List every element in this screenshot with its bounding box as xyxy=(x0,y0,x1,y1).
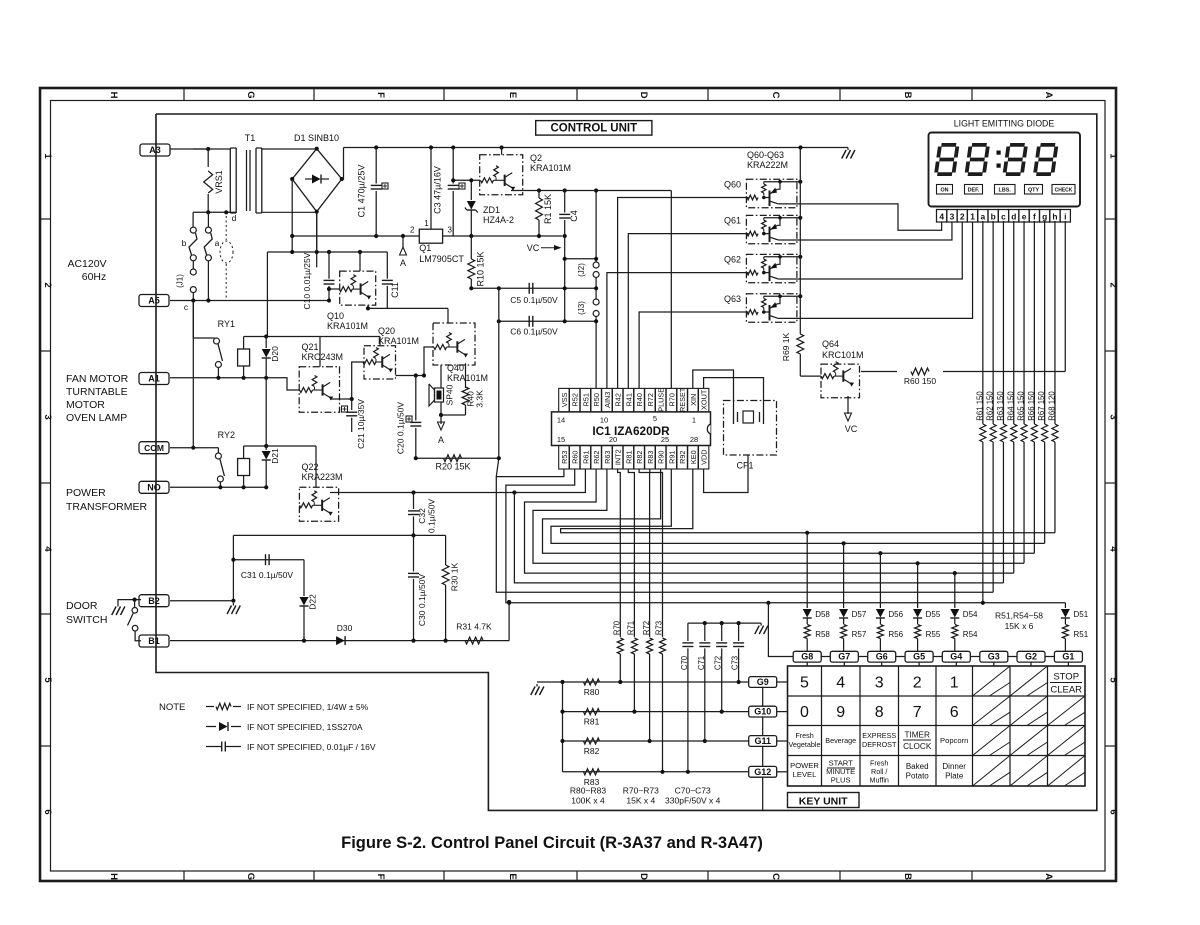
capacitor C6 0.1u/50V xyxy=(528,316,530,327)
node G4 strobe box xyxy=(942,651,970,662)
svg-text:R82: R82 xyxy=(584,746,600,756)
diode D54 xyxy=(953,571,957,575)
wire G9 row xyxy=(563,681,749,683)
svg-text:R69 1K: R69 1K xyxy=(781,332,791,361)
wire VC column xyxy=(564,236,566,321)
resistor R67 150 xyxy=(1044,221,1046,424)
wire display pin 4 to Q60 xyxy=(778,204,941,230)
resistor R56 xyxy=(877,625,883,639)
wire Q21 emitter to C21 column xyxy=(330,398,352,400)
wire B2 row xyxy=(170,600,233,602)
svg-text:CLEAR: CLEAR xyxy=(1050,685,1082,696)
node rail Q60 collector line xyxy=(798,145,802,149)
svg-text:H: H xyxy=(108,873,119,880)
wire A5 column to RY1 xyxy=(193,301,214,339)
resistor R61 150 xyxy=(982,221,984,424)
svg-text:D1 SINB10: D1 SINB10 xyxy=(294,133,339,143)
svg-text:(J1): (J1) xyxy=(176,274,185,288)
svg-text:R81: R81 xyxy=(584,717,600,727)
node emitter C4 xyxy=(563,188,567,192)
svg-text:G3: G3 xyxy=(988,652,1000,662)
svg-text:HZ4A-2: HZ4A-2 xyxy=(483,215,514,225)
svg-text:f: f xyxy=(1033,211,1036,221)
svg-text:Vegetable: Vegetable xyxy=(789,740,821,749)
wire bridge bottom to zero-cross row xyxy=(316,212,318,252)
svg-text:c: c xyxy=(1001,211,1006,221)
svg-text:A5: A5 xyxy=(148,296,160,306)
relay coil RY2 xyxy=(238,459,250,476)
svg-text:i: i xyxy=(1064,211,1066,221)
IC1 bottom pin labels xyxy=(559,446,709,470)
svg-text:Popcorn: Popcorn xyxy=(940,736,968,745)
svg-text:OVEN LAMP: OVEN LAMP xyxy=(66,412,127,424)
svg-text:PLUS: PLUS xyxy=(831,776,851,785)
svg-text:R1 15K: R1 15K xyxy=(543,194,553,224)
wire Q2 base from C3 node xyxy=(453,179,480,181)
svg-text:R65 150: R65 150 xyxy=(1017,391,1026,421)
capacitor C3 47u/16V xyxy=(452,148,454,184)
svg-text:(J2): (J2) xyxy=(577,263,586,277)
resistor R66 150 xyxy=(1033,221,1035,424)
capacitor C20 0.1u/50V xyxy=(415,376,417,421)
svg-text:R73: R73 xyxy=(655,621,664,635)
wire D20 column to RY2 xyxy=(265,378,267,446)
svg-text:C6 0.1µ/50V: C6 0.1µ/50V xyxy=(510,327,558,337)
wire C31 C32 row xyxy=(233,534,445,536)
svg-text:KRC101M: KRC101M xyxy=(822,350,864,360)
svg-text:B2: B2 xyxy=(148,596,160,606)
wire lower supply rail xyxy=(292,235,419,237)
wire VDD to CF1 xyxy=(704,455,748,493)
svg-text:FAN MOTOR: FAN MOTOR xyxy=(66,373,129,385)
svg-text:C11: C11 xyxy=(390,282,400,298)
display pin row 4321 abcdefghi xyxy=(937,210,1071,223)
wire speaker to A arrow xyxy=(440,402,442,415)
display tag CHECK xyxy=(1052,185,1075,195)
wire Q22 emitter row xyxy=(330,492,514,494)
note resistor symbol xyxy=(206,706,214,708)
capacitor C10 0.01u/25V xyxy=(328,252,330,279)
door switch contacts xyxy=(133,598,137,602)
svg-text:1: 1 xyxy=(970,211,975,221)
node G7 strobe box xyxy=(830,651,858,662)
wire segment bus line h xyxy=(561,469,1055,533)
wire Q22 collector riser xyxy=(315,446,317,487)
svg-text:d: d xyxy=(1011,211,1016,221)
resistor R81 100K xyxy=(584,709,600,715)
svg-text:G9: G9 xyxy=(757,677,769,687)
node A3-VRS1 xyxy=(206,147,210,151)
wire sense left tie column xyxy=(562,682,564,772)
svg-text:R91: R91 xyxy=(667,451,676,464)
node c junction xyxy=(191,298,195,302)
keypad grid xyxy=(788,666,1086,786)
terminal A3 xyxy=(140,144,170,156)
resistor R65 150 xyxy=(1023,221,1025,424)
svg-text:F: F xyxy=(375,92,386,98)
svg-text:CLOCK: CLOCK xyxy=(903,742,932,751)
capacitor C32 0.1u/50V xyxy=(413,493,415,510)
wire C31 row xyxy=(233,559,304,561)
display tag LBS xyxy=(995,185,1016,195)
resistor R82 100K xyxy=(584,738,600,744)
svg-text:EXPRESS: EXPRESS xyxy=(862,731,896,740)
door switch ground xyxy=(118,600,141,604)
capacitor C30 0.1u/50V xyxy=(413,535,415,571)
wire C70-73 top rail xyxy=(688,622,761,624)
node G10 sense box xyxy=(749,706,777,717)
svg-text:R31 4.7K: R31 4.7K xyxy=(456,622,492,632)
resistor R30 1K xyxy=(445,535,447,565)
svg-text:C70~C73: C70~C73 xyxy=(675,786,711,796)
svg-text:C1 470µ/25V: C1 470µ/25V xyxy=(357,165,367,218)
capacitor C31 0.1u/50V xyxy=(265,554,267,565)
svg-text:KEY UNIT: KEY UNIT xyxy=(799,795,848,807)
svg-text:R57: R57 xyxy=(852,630,867,639)
svg-text:R70: R70 xyxy=(613,620,622,635)
svg-text:6: 6 xyxy=(1108,809,1119,814)
wire C6 row xyxy=(499,320,596,322)
svg-text:R40: R40 xyxy=(635,393,644,406)
svg-text:D54: D54 xyxy=(963,610,978,619)
svg-text:G12: G12 xyxy=(754,767,771,777)
resonator CF1 xyxy=(724,401,777,456)
svg-text:5: 5 xyxy=(653,414,657,423)
node G8 strobe box xyxy=(793,651,821,662)
svg-text:4: 4 xyxy=(836,675,845,692)
wire R31 riser to bus xyxy=(508,602,510,641)
transistor Q20 KRA101M xyxy=(364,346,396,379)
svg-text:25: 25 xyxy=(661,435,669,444)
svg-text:R66 150: R66 150 xyxy=(1027,391,1036,421)
svg-text:E: E xyxy=(507,873,518,879)
connector J3 xyxy=(595,288,597,299)
svg-text:R70~R73: R70~R73 xyxy=(623,786,659,796)
svg-text:CF1: CF1 xyxy=(736,461,753,471)
display colon xyxy=(997,151,1001,155)
wire zero-cross row xyxy=(267,251,387,253)
svg-text:R52: R52 xyxy=(571,393,580,406)
node A arrow down xyxy=(440,415,442,424)
resistor R83 100K xyxy=(584,769,600,775)
display tag QTY xyxy=(1025,185,1043,195)
svg-text:ON: ON xyxy=(940,188,948,194)
svg-text:R51: R51 xyxy=(1074,630,1089,639)
svg-text:1: 1 xyxy=(42,153,53,159)
svg-text:C: C xyxy=(770,873,781,880)
svg-text:B: B xyxy=(902,92,913,99)
svg-text:IF NOT SPECIFIED, 1/4W ± 5%: IF NOT SPECIFIED, 1/4W ± 5% xyxy=(247,702,369,712)
wire G box column xyxy=(762,687,764,706)
svg-text:4: 4 xyxy=(1108,546,1119,552)
svg-text:R55: R55 xyxy=(926,630,941,639)
svg-text:G7: G7 xyxy=(838,652,850,662)
svg-text:Q10: Q10 xyxy=(327,311,344,321)
svg-text:Q62: Q62 xyxy=(724,254,741,264)
svg-text:F: F xyxy=(375,874,386,880)
svg-text:CHECK: CHECK xyxy=(1055,188,1073,194)
svg-text:0.1µ/50V: 0.1µ/50V xyxy=(427,499,437,534)
node lower rail A xyxy=(401,234,405,238)
svg-text:1: 1 xyxy=(424,219,429,228)
frame tick marks left xyxy=(40,219,51,746)
7-segment digit 2 xyxy=(966,145,988,174)
svg-text:G10: G10 xyxy=(754,707,771,717)
svg-text:R81: R81 xyxy=(624,451,633,464)
inner border frame xyxy=(51,101,1106,872)
svg-text:5: 5 xyxy=(800,675,809,692)
CONTROL UNIT label box xyxy=(536,121,652,136)
svg-text:R53: R53 xyxy=(560,451,569,464)
node ZD1 rail xyxy=(469,234,473,238)
svg-text:KE0: KE0 xyxy=(689,450,698,464)
svg-text:B: B xyxy=(902,873,913,880)
relay contact RY2 xyxy=(217,448,219,453)
svg-text:PLUSE: PLUSE xyxy=(657,388,666,412)
node VRS1 bottom xyxy=(206,210,210,214)
svg-text:2: 2 xyxy=(1108,282,1119,287)
svg-text:C31 0.1µ/50V: C31 0.1µ/50V xyxy=(241,570,293,580)
svg-text:RY2: RY2 xyxy=(218,430,235,440)
svg-text:Plate: Plate xyxy=(945,772,964,781)
resistor R73 15K xyxy=(650,469,663,637)
node G6 strobe box xyxy=(868,651,896,662)
interlock dashed linkage xyxy=(225,216,227,240)
svg-text:3: 3 xyxy=(875,675,884,692)
wire switch leg b from rail xyxy=(193,148,208,150)
wire A1 row xyxy=(170,377,266,379)
svg-text:b: b xyxy=(182,238,187,248)
wire relay supply column xyxy=(266,252,268,337)
svg-text:Q2: Q2 xyxy=(530,153,542,163)
svg-text:KRA222M: KRA222M xyxy=(747,160,788,170)
wire segment bus line d xyxy=(525,469,1014,573)
svg-text:TURNTABLE: TURNTABLE xyxy=(66,386,128,398)
svg-text:ZD1: ZD1 xyxy=(483,205,500,215)
wire key line a to D51 xyxy=(983,602,1066,604)
svg-text:C20 0.1µ/50V: C20 0.1µ/50V xyxy=(396,402,406,454)
wire G8 chain riser xyxy=(768,603,793,657)
svg-text:D55: D55 xyxy=(926,610,941,619)
resistor R20 15K xyxy=(416,457,499,459)
wire R41 riser to Q61 base xyxy=(628,234,748,389)
svg-text:R63 150: R63 150 xyxy=(996,391,1005,421)
svg-text:(J3): (J3) xyxy=(577,301,586,315)
wire Q20 collector stub xyxy=(379,337,381,346)
wire NO row xyxy=(170,486,266,488)
display tag ON xyxy=(937,185,953,195)
svg-text:R54: R54 xyxy=(963,630,978,639)
svg-text:2: 2 xyxy=(960,211,965,221)
svg-text:Q61: Q61 xyxy=(724,215,741,225)
svg-text:B1: B1 xyxy=(148,636,160,646)
svg-text:KRA101M: KRA101M xyxy=(327,321,368,331)
terminal NO xyxy=(139,481,169,493)
svg-text:LM7905CT: LM7905CT xyxy=(419,254,464,264)
svg-text:VRS1: VRS1 xyxy=(214,170,224,194)
wire R70 riser from Q2 emitter xyxy=(670,191,672,389)
wire COM row xyxy=(170,447,218,449)
svg-text:TIMER: TIMER xyxy=(904,731,930,740)
svg-text:0: 0 xyxy=(800,704,809,721)
svg-text:Beverage: Beverage xyxy=(825,736,856,745)
wire segment bus line c xyxy=(514,469,1003,583)
node G9 sense box xyxy=(749,677,777,688)
svg-text:15K x 4: 15K x 4 xyxy=(626,796,655,806)
svg-text:Q63: Q63 xyxy=(724,294,741,304)
wire G11 row xyxy=(563,740,749,742)
terminal A1 xyxy=(139,373,169,385)
svg-text:6: 6 xyxy=(950,704,959,721)
svg-text:G8: G8 xyxy=(801,652,813,662)
svg-text:D56: D56 xyxy=(888,610,903,619)
resistor R68 120 xyxy=(1054,221,1056,424)
transistor Q62 xyxy=(746,254,797,282)
svg-text:Baked: Baked xyxy=(906,762,929,771)
transistor Q10 KRA101M xyxy=(340,271,376,305)
svg-text:2: 2 xyxy=(42,282,53,287)
wire segment bus line g xyxy=(551,469,1045,543)
svg-text:E: E xyxy=(507,92,518,98)
svg-text:D30: D30 xyxy=(337,623,353,633)
svg-text:R62: R62 xyxy=(592,451,601,464)
svg-text:VC: VC xyxy=(845,424,858,434)
wire display pin 3 to Q61 xyxy=(778,222,952,240)
resistor R55 xyxy=(915,625,921,639)
node G1 strobe box xyxy=(1054,651,1082,662)
svg-text:R83: R83 xyxy=(646,451,655,464)
svg-text:VDD: VDD xyxy=(700,449,709,464)
svg-text:Q64: Q64 xyxy=(822,339,839,349)
diode D30 xyxy=(336,636,345,645)
LED display body xyxy=(929,133,1081,207)
wire Q2 emitter line xyxy=(511,190,671,192)
svg-text:NOTE: NOTE xyxy=(159,702,185,713)
wire C31 left column xyxy=(232,535,234,600)
KEY UNIT label box xyxy=(788,793,860,808)
svg-text:a: a xyxy=(981,211,986,221)
svg-text:G6: G6 xyxy=(876,652,888,662)
svg-text:R62 150: R62 150 xyxy=(986,391,995,421)
resistor R57 xyxy=(841,625,847,639)
svg-text:A: A xyxy=(400,258,406,268)
svg-text:KRA101M: KRA101M xyxy=(447,373,488,383)
node rail Q1 riser xyxy=(429,145,433,149)
resistor R69 1K xyxy=(797,334,804,354)
capacitor C72 xyxy=(721,623,723,641)
capacitor C21 10u/35V xyxy=(346,411,357,413)
wire VRS1 bottom rail xyxy=(193,211,236,213)
wire R42 riser to Q60 base xyxy=(618,198,749,389)
svg-text:R80: R80 xyxy=(584,687,600,697)
IC IC1 IZA620DR body xyxy=(552,412,711,446)
wire A5 row xyxy=(170,300,329,302)
svg-text:100K x 4: 100K x 4 xyxy=(571,796,605,806)
svg-text:60Hz: 60Hz xyxy=(82,271,107,283)
svg-text:XOUT: XOUT xyxy=(700,389,709,410)
resistor R54 xyxy=(952,625,958,639)
node G12 sense box xyxy=(749,766,777,777)
resistor R63 150 xyxy=(1002,221,1004,424)
node C10 bottom xyxy=(327,298,331,302)
svg-text:D20: D20 xyxy=(270,346,280,362)
svg-text:D: D xyxy=(638,873,649,880)
wire R40 riser to Q63 base xyxy=(639,312,748,388)
capacitor C71 xyxy=(704,623,706,641)
regulator Q1 LM7905CT xyxy=(419,229,442,243)
svg-text:SWITCH: SWITCH xyxy=(66,614,107,626)
svg-text:IC1 IZA620DR: IC1 IZA620DR xyxy=(592,424,670,438)
wire Q10 emitter stub xyxy=(367,305,369,308)
wire bridge positive riser xyxy=(342,148,344,180)
svg-text:VSS: VSS xyxy=(560,392,569,407)
wire Q40 collector row xyxy=(368,307,448,309)
connector J2 xyxy=(595,191,597,263)
frame tick marks right xyxy=(1105,219,1116,746)
resistor R51 xyxy=(1062,625,1068,639)
svg-text:R71: R71 xyxy=(627,621,636,635)
wire Q64 base xyxy=(800,375,821,377)
capacitor C4 xyxy=(564,191,566,213)
svg-text:C5 0.1µ/50V: C5 0.1µ/50V xyxy=(510,295,558,305)
resistor R1 15K xyxy=(538,191,540,199)
svg-text:DOOR: DOOR xyxy=(66,600,98,612)
transistor Q2 KRA101M xyxy=(480,155,523,195)
wire segment bus line a xyxy=(506,469,983,603)
node emitter R1 xyxy=(537,188,541,192)
capacitor C73 xyxy=(738,623,740,641)
node A arrow xyxy=(402,236,404,247)
svg-text:Figure S-2. Control Panel Circ: Figure S-2. Control Panel Circuit (R-3A3… xyxy=(341,834,763,852)
wire B1 row xyxy=(170,640,509,642)
terminal B2 xyxy=(139,595,169,607)
svg-text:R56: R56 xyxy=(888,630,903,639)
svg-text:2: 2 xyxy=(913,675,922,692)
transistor Q40 KRA101M xyxy=(433,323,475,365)
diode D51 xyxy=(1064,603,1066,608)
wire Q60-63 collector column xyxy=(799,148,801,335)
wire bridge negative riser xyxy=(291,179,293,236)
svg-text:Q60: Q60 xyxy=(724,179,741,189)
keypad hatched cells xyxy=(973,666,1086,786)
7-segment digit 3 xyxy=(1004,145,1026,174)
svg-text:D57: D57 xyxy=(852,610,867,619)
diode D55 xyxy=(916,561,920,565)
svg-text:LEVEL: LEVEL xyxy=(793,770,817,779)
wire Q40 collector riser xyxy=(447,308,449,323)
diode D20 xyxy=(265,337,267,349)
svg-text:INT2: INT2 xyxy=(614,449,623,465)
svg-text:IF NOT SPECIFIED, 1SS270A: IF NOT SPECIFIED, 1SS270A xyxy=(247,722,363,732)
diode D21 xyxy=(262,451,271,460)
svg-text:R72: R72 xyxy=(642,621,651,635)
svg-text:15K x 6: 15K x 6 xyxy=(1005,621,1034,631)
svg-text:R30 1K: R30 1K xyxy=(450,562,460,591)
svg-text:C32: C32 xyxy=(417,508,427,524)
svg-text:3: 3 xyxy=(42,414,53,419)
svg-text:4: 4 xyxy=(42,546,53,552)
7-segment digit 4 xyxy=(1035,145,1057,174)
svg-text:AC120V: AC120V xyxy=(67,258,106,270)
wire top supply rail xyxy=(344,147,849,149)
node R70-73 row junctions xyxy=(618,680,622,684)
wire segment bus line f xyxy=(543,469,1035,553)
svg-text:G1: G1 xyxy=(1062,652,1074,662)
wire Q64 collector R60 row xyxy=(861,371,897,373)
svg-text:28: 28 xyxy=(690,435,698,444)
svg-text:D: D xyxy=(638,92,649,99)
wire Q64 emitter to VC xyxy=(847,396,849,414)
